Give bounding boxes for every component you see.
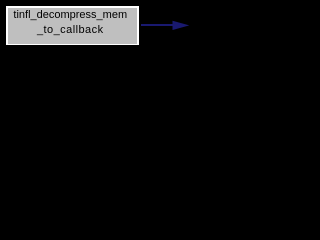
node label line 2 xyxy=(6,23,135,38)
node box ring: tinfl_decompress_mem_to_callback xyxy=(6,6,139,45)
arrowhead xyxy=(172,20,190,31)
node box fill xyxy=(8,8,137,44)
wire: call edge xyxy=(141,24,173,26)
node label line 1 xyxy=(6,8,135,23)
